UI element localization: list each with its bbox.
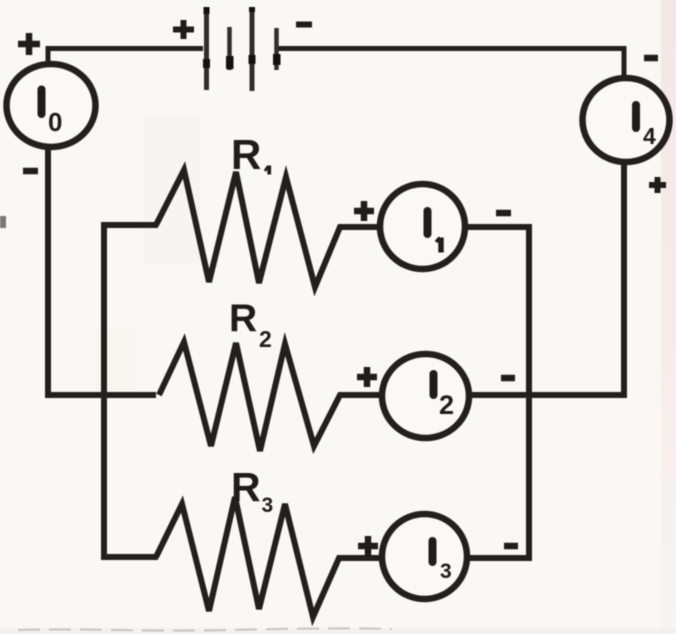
svg-text:4: 4 — [643, 123, 656, 149]
svg-text:3: 3 — [262, 494, 274, 517]
svg-text:2: 2 — [259, 326, 272, 352]
svg-text:R: R — [231, 131, 261, 178]
svg-text:2: 2 — [439, 390, 454, 420]
svg-text:0: 0 — [48, 107, 62, 137]
svg-text:3: 3 — [440, 560, 452, 583]
svg-text:R: R — [231, 464, 261, 510]
svg-text:R: R — [229, 297, 257, 340]
